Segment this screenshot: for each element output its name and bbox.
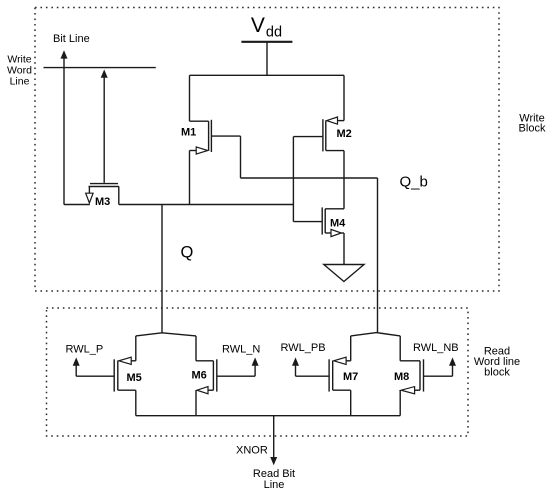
transistor M7 (329, 357, 351, 416)
svg-text:M6: M6 (192, 370, 207, 382)
wire M2 gate to M4 gate (293, 137, 323, 222)
transistor M6 (196, 359, 217, 415)
transistor M2 (323, 75, 344, 209)
wire Q node row left segment (64, 204, 90, 206)
wire RWL_P arrow and lead (73, 357, 115, 376)
svg-text:M4: M4 (330, 218, 346, 230)
svg-text:Q_b: Q_b (400, 174, 428, 191)
wire Q_b to read block (377, 178, 379, 333)
wire top supply rail (190, 74, 345, 76)
wire WWL to M3 gate with up arrow (101, 70, 108, 183)
Read Word line block dotted border (47, 308, 469, 436)
wire Q_b horizontal (241, 177, 378, 179)
svg-text:Line: Line (10, 76, 30, 88)
transistor M5 (114, 357, 136, 416)
svg-text:Q: Q (181, 244, 194, 262)
svg-text:RWL_N: RWL_N (222, 344, 260, 356)
wire RWL_N arrow and lead (217, 357, 259, 376)
svg-text:V: V (251, 14, 265, 37)
node Vdd label (251, 14, 282, 41)
transistor M1 (190, 75, 212, 204)
svg-text:RWL_NB: RWL_NB (413, 342, 459, 354)
svg-text:M2: M2 (337, 128, 352, 140)
label Read Bit Line (253, 468, 295, 491)
svg-text:M8: M8 (394, 371, 409, 383)
svg-text:RWL_PB: RWL_PB (281, 342, 326, 354)
wire RWL_PB arrow and lead (292, 357, 329, 376)
transistor M3 (pass transistor, horizontal) (86, 184, 119, 205)
wire Write Word Line horizontal (44, 67, 156, 69)
wire XNOR output with down arrow (270, 416, 277, 466)
label Write Block (519, 113, 546, 135)
ground (324, 265, 364, 282)
wire left pair roof (136, 333, 196, 361)
svg-text:Bit Line: Bit Line (53, 33, 90, 45)
svg-text:M1: M1 (181, 127, 196, 139)
wire M1 gate to Q_b (211, 136, 240, 178)
transistor M4 (293, 207, 344, 264)
Vdd supply bar (241, 41, 292, 43)
wire right pair roof (351, 333, 401, 361)
transistor M8 (400, 359, 423, 415)
svg-text:Block: Block (519, 123, 546, 135)
label Write Word Line (7, 54, 32, 88)
Write Block dotted border (35, 8, 499, 292)
svg-text:M7: M7 (343, 371, 358, 383)
wire bottom rail (136, 415, 400, 417)
wire Q node row right segment (119, 204, 294, 206)
svg-text:dd: dd (266, 24, 282, 40)
wire Q to read block (161, 205, 163, 333)
wire RWL_NB arrow and lead (424, 357, 457, 376)
svg-text:Line: Line (264, 479, 285, 491)
svg-text:M5: M5 (127, 372, 142, 384)
wire Vdd stem (266, 42, 268, 76)
svg-text:RWL_P: RWL_P (66, 344, 104, 356)
label Read Word line block (474, 346, 520, 379)
svg-text:XNOR: XNOR (236, 445, 268, 457)
svg-text:M3: M3 (95, 196, 110, 208)
wire Bit Line vertical with up arrow (61, 50, 68, 204)
svg-text:block: block (484, 367, 510, 379)
